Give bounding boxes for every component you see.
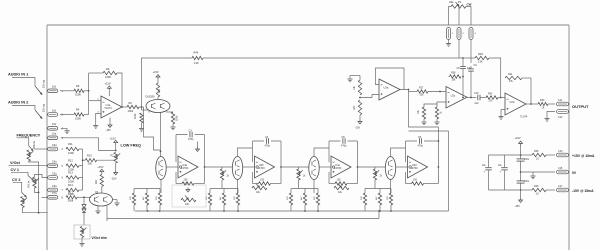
- svg-text:100n: 100n: [524, 159, 530, 161]
- svg-text:R17: R17: [68, 191, 73, 195]
- svg-text:C12: C12: [558, 116, 563, 119]
- capacitor C10 2u2: [478, 96, 480, 98]
- U2d feedback riser left: [500, 78, 502, 98]
- wire R18 to expo pair: [101, 186, 103, 192]
- resistor R10 2k2: [156, 83, 159, 97]
- frame top border: [47, 24, 569, 26]
- wire CV2 wiper to expo row: [42, 197, 48, 199]
- wire U2d output: [526, 103, 538, 105]
- stage 3 loop right wire: [357, 141, 359, 167]
- stage 4 bias resistor 2: [379, 189, 381, 194]
- connector CV1: [48, 176, 58, 180]
- connector pin 1: [447, 28, 451, 40]
- svg-text:CV 1: CV 1: [11, 168, 19, 172]
- connector output ground: [557, 110, 569, 114]
- wire U1a noninverting input to ground: [96, 113, 101, 125]
- junction power rail / -15V row: [520, 189, 522, 191]
- wire CV1 pot bottom to ground bus: [35, 188, 39, 192]
- wire C10 to R42: [480, 97, 486, 99]
- junction power rail / +15V row: [520, 154, 522, 156]
- svg-text:43k: 43k: [449, 0, 454, 4]
- resistor R11 100K: [66, 147, 79, 150]
- svg-text:TL074: TL074: [104, 106, 112, 110]
- resistor R36 1k5: [358, 100, 361, 115]
- stage 4 loop top wire: [406, 140, 439, 142]
- wire P1 pin 3 tap down: [470, 66, 472, 69]
- wire stage 1 bias resistor 1 to bus: [133, 205, 135, 211]
- connector frequency: [48, 147, 58, 151]
- stage 2 feedback right wire: [280, 167, 282, 184]
- svg-text:100K: 100K: [75, 93, 81, 97]
- diode D2: [82, 209, 86, 213]
- ground input 3: [64, 130, 69, 132]
- wire pot 1 to R5: [60, 90, 74, 92]
- resistor R35 10k: [358, 80, 361, 95]
- pot 10k audio extra row: [48, 136, 58, 140]
- trimmer pot V/Oct trim: [80, 227, 83, 238]
- connector pin 3: [469, 28, 473, 40]
- bus A wire (bias bus): [135, 210, 449, 212]
- op-amp U2d TL074: [505, 93, 526, 115]
- stage 1 feedback lower wire: [175, 172, 177, 184]
- svg-text:470p: 470p: [341, 145, 347, 148]
- wire R4 to summing node: [84, 114, 89, 116]
- trimmer P2 10k: [181, 198, 196, 201]
- pot CV2 47k: [21, 197, 24, 208]
- op-amp U4a stage 1: [178, 156, 198, 178]
- svg-text:470p: 470p: [265, 145, 271, 148]
- resistor R45 power +: [526, 154, 532, 156]
- ground U2d: [498, 116, 503, 118]
- stage 2 bias resistor 1: [209, 189, 211, 194]
- wire R6 to filter stage 1 node: [139, 106, 144, 108]
- junction summing node row1: [88, 90, 90, 92]
- svg-text:R27: R27: [419, 86, 424, 89]
- switch frequency jack: [29, 146, 33, 151]
- stage 3 loop top wire: [329, 140, 358, 142]
- -15V arrow divider: [359, 115, 361, 120]
- resistor R7 100k left: [140, 113, 143, 123]
- svg-text:R4: R4: [76, 108, 80, 112]
- summing node wire: [88, 73, 90, 115]
- pot 100k frequency: [27, 150, 30, 161]
- wire U2a output to R27: [409, 91, 418, 93]
- wire stage 3 bias resistor 1 to bus: [290, 205, 292, 211]
- wire power caps top: [489, 154, 521, 156]
- svg-text:OUTPUT: OUTPUT: [572, 104, 589, 109]
- -15V arrow low freq: [114, 171, 118, 176]
- svg-text:C15: C15: [558, 167, 563, 170]
- svg-text:P1: P1: [458, 0, 462, 4]
- wire P1 right end to connector: [466, 7, 471, 26]
- U2a feedback loop wire: [376, 68, 405, 90]
- svg-text:13K: 13K: [194, 61, 199, 65]
- -15V stub near stage 1 loop: [197, 142, 199, 148]
- frame right border: [568, 25, 570, 250]
- ground U1a input: [93, 125, 98, 127]
- pot 10k audio 1: [48, 89, 58, 93]
- svg-text:C11: C11: [558, 99, 563, 102]
- stage 2 feedback resistor 100k: [253, 183, 259, 185]
- svg-text:470p: 470p: [188, 138, 194, 141]
- capacitor C9 47p tap: [470, 69, 472, 71]
- bus A riser to stage 4 loop: [448, 131, 450, 211]
- stage 2 bias top wire: [210, 188, 238, 190]
- wire frequency pot to connector: [35, 148, 48, 150]
- svg-text:100K: 100K: [68, 179, 74, 183]
- svg-text:1k5: 1k5: [353, 105, 356, 110]
- ground V/Oct trim: [79, 243, 84, 245]
- op-amp U4c stage 3: [331, 156, 351, 178]
- stage 3 loop left wire: [328, 141, 330, 162]
- ground output jack: [544, 118, 549, 120]
- wire bus to R39: [463, 57, 475, 59]
- svg-text:100: 100: [337, 179, 342, 182]
- junction bus A: [304, 210, 306, 212]
- svg-text:V/Oct: V/Oct: [10, 161, 21, 165]
- wire +15V row: [521, 154, 526, 156]
- wire stage 2 pair top to loop: [238, 148, 253, 157]
- junction tap to signal: [470, 97, 472, 99]
- svg-text:100n: 100n: [524, 181, 530, 183]
- ground 0V: [532, 172, 534, 176]
- wire U2a output down: [404, 90, 438, 128]
- +15V arrow stage 1 top: [156, 75, 160, 80]
- junction ground bus / CV3 row: [38, 212, 40, 214]
- feedback bus wire: [142, 57, 464, 59]
- wire stage 1 bias resistor 3 to bus: [159, 205, 161, 211]
- svg-text:13K: 13K: [478, 60, 483, 64]
- wire output ground connector: [547, 112, 555, 119]
- stage 4 input trimmer: [374, 167, 376, 169]
- wire 0V row: [521, 171, 555, 173]
- resistor R30: [435, 107, 438, 119]
- wire R43 to output connector: [548, 103, 555, 105]
- power rail wire +: [520, 146, 522, 199]
- resistor R44 13K in feedback bus: [192, 55, 203, 61]
- wire pot 2 to R4: [60, 114, 74, 116]
- filter stage 2 transistor pair: [232, 157, 242, 180]
- connector output hot: [557, 102, 569, 106]
- wire stage 4 loop feed: [437, 127, 439, 141]
- -15V arrow power: [519, 198, 523, 203]
- wire pin 2 to feedback bus: [458, 40, 460, 59]
- frame left border: [46, 25, 48, 250]
- svg-text:10k log: 10k log: [43, 79, 46, 88]
- svg-text:100k: 100k: [128, 109, 134, 113]
- junction power rail mid: [520, 171, 522, 173]
- resistor R4 100K: [74, 113, 84, 116]
- filter stage 1 transistor pair: [156, 157, 166, 180]
- stage 2 bias resistor 3: [237, 189, 239, 194]
- connector pin 2: [457, 28, 461, 40]
- svg-text:U2a: U2a: [384, 86, 389, 90]
- stage 2 loop left wire: [252, 141, 254, 162]
- svg-text:C10: C10: [474, 92, 479, 95]
- electrolytic cap C18 10u: [488, 155, 490, 167]
- svg-text:-15V: -15V: [111, 177, 117, 181]
- pot 10k audio 2: [48, 113, 58, 117]
- capacitor C8 47p feedback: [462, 67, 464, 69]
- wire stage 4 pair bottom down: [390, 180, 392, 194]
- stage 3 feedback right wire: [357, 167, 359, 184]
- svg-text:+15V: +15V: [110, 136, 116, 140]
- switch audio in 1: [35, 86, 42, 95]
- electrolytic cap C19 10u: [504, 155, 506, 167]
- svg-text:100K: 100K: [68, 151, 74, 155]
- svg-text:13700: 13700: [334, 166, 342, 170]
- svg-text:-15V: -15V: [515, 204, 521, 208]
- wire +15V to R10: [157, 79, 159, 83]
- svg-text:470p: 470p: [418, 145, 424, 148]
- resistor R38 10k feedback: [450, 75, 462, 78]
- wire CV2 jack: [13, 182, 22, 192]
- wire trimmer to ground: [81, 238, 83, 244]
- svg-text:R39: R39: [478, 52, 483, 56]
- svg-text:R45: R45: [534, 150, 539, 153]
- svg-text:R38: R38: [451, 71, 456, 74]
- resistor R6 100k to stage 1: [127, 105, 139, 108]
- CV summing node vertical wire: [82, 149, 84, 190]
- svg-text:CA3280: CA3280: [145, 95, 155, 99]
- svg-text:C5a: C5a: [52, 172, 57, 175]
- resistor R14 100K: [66, 188, 79, 191]
- svg-text:C7a: C7a: [52, 192, 57, 195]
- stage 3 bias resistor 3: [317, 189, 319, 194]
- OTA CA3280 input pair: [146, 100, 170, 113]
- switch audio in 2: [35, 110, 42, 119]
- svg-text:R11: R11: [68, 142, 73, 146]
- junction bus A: [379, 210, 381, 212]
- svg-text:10k: 10k: [88, 161, 93, 165]
- resistor R39 13K: [475, 56, 489, 59]
- wire stage 3 pair bottom down: [313, 180, 315, 194]
- stage 1 feedback right wire: [204, 167, 206, 184]
- ground R8: [172, 124, 174, 127]
- wire U2c noninverting network: [437, 102, 446, 107]
- svg-text:R41: R41: [508, 73, 513, 76]
- filter stage 3 transistor pair: [309, 157, 319, 180]
- wire R39 to summing node riser: [489, 58, 501, 78]
- wire stage 3 bias resistor 3 to bus: [317, 205, 319, 211]
- svg-text:R42: R42: [488, 92, 493, 95]
- trimmer P3 10k: [252, 186, 267, 189]
- ground below connector pin 1: [448, 40, 450, 44]
- svg-text:13700: 13700: [410, 166, 418, 170]
- svg-text:U2c: U2c: [451, 93, 456, 97]
- wire R13 to CV summing node: [79, 177, 83, 179]
- wire bus corner down to stage 1: [141, 58, 143, 107]
- trimmer P2 low freq: [114, 152, 117, 163]
- wire R38 to riser: [462, 76, 464, 78]
- wire stage 2 pair bottom down: [237, 180, 239, 194]
- stage 4 bias top wire: [365, 188, 391, 190]
- svg-text:100: 100: [413, 179, 418, 182]
- stage 1 bias resistor 2: [146, 189, 148, 194]
- svg-text:13700: 13700: [257, 166, 265, 170]
- ground R30: [436, 119, 438, 122]
- stage 2 input trimmer: [221, 167, 223, 169]
- pot CV1 47k: [33, 177, 36, 188]
- wire low freq row to trimmer: [61, 138, 115, 151]
- stage 3 output junction: [357, 166, 359, 168]
- junction bus A / riser: [378, 210, 380, 212]
- ground R7: [141, 123, 143, 128]
- stage 4 loop right wire: [437, 141, 439, 167]
- wire audio in 2 jack: [12, 106, 35, 111]
- stage 2 feedback lower wire: [252, 172, 254, 184]
- resistor R42 27k: [486, 96, 498, 99]
- resistor R5 100K: [74, 89, 84, 92]
- svg-text:10k log: 10k log: [43, 103, 46, 112]
- svg-text:Q1: Q1: [95, 190, 99, 194]
- svg-text:10a: 10a: [52, 133, 57, 136]
- svg-text:0V: 0V: [572, 171, 577, 175]
- wire stage 1 pair output to op-amp: [166, 166, 178, 168]
- wire R11 to CV summing node: [79, 148, 83, 150]
- wire U2c output right: [467, 97, 476, 99]
- wire stage 1 output to stage 2: [205, 166, 233, 168]
- stage 1 bias resistor 3: [159, 189, 161, 194]
- wire stage 4 pair top to loop: [391, 148, 406, 157]
- resistor R46 power -: [526, 189, 532, 191]
- svg-text:U2d: U2d: [510, 100, 515, 104]
- trimmer P1 43k resonance pot: [451, 5, 466, 8]
- junction stage 4 loop: [438, 140, 440, 142]
- stage 3 bias resistor 1: [290, 189, 292, 194]
- wire input 3 to ground: [61, 128, 67, 130]
- svg-text:AUDIO IN 1: AUDIO IN 1: [8, 73, 28, 77]
- svg-text:2k2: 2k2: [95, 179, 98, 184]
- svg-text:47k lin: 47k lin: [28, 180, 31, 188]
- U2c feedback riser: [462, 58, 464, 66]
- capacitor C6 470p stage 4: [417, 139, 424, 142]
- wire frequency jack: [17, 138, 29, 146]
- wire R17 to expo node: [77, 196, 91, 198]
- svg-text:R5: R5: [76, 84, 80, 88]
- capacitor C3 470p stage 1: [188, 133, 195, 136]
- wire stage 4 bias resistor 3 to bus: [390, 205, 392, 211]
- stage 4 bias resistor 1: [364, 189, 366, 194]
- wire expo base chain down: [83, 197, 85, 204]
- svg-text:100K: 100K: [105, 75, 111, 79]
- junction low freq trimmer top: [115, 150, 117, 152]
- stage 3 feedback lower wire: [328, 172, 330, 184]
- wire audio in 1 jack: [12, 78, 35, 87]
- stage 4 feedback resistor 100k: [406, 183, 412, 185]
- wire bus riser top: [409, 130, 449, 132]
- ground expo pair bottom: [97, 206, 99, 211]
- stage 4 feedback lower wire: [405, 172, 407, 184]
- junction U2c output feedback: [462, 97, 464, 99]
- feedback wire over U1a: [89, 72, 103, 74]
- svg-text:2k2: 2k2: [158, 88, 161, 93]
- svg-text:TL074: TL074: [520, 115, 528, 119]
- connector +15V: [557, 153, 569, 157]
- stage 2 bias resistor 2: [223, 189, 225, 194]
- wire stage 2 pair output to op-amp: [243, 166, 255, 168]
- svg-text:R12: R12: [68, 159, 73, 163]
- wire diodes to trimmer: [83, 213, 85, 226]
- junction stage 1 top: [160, 151, 162, 153]
- bus B to bus A riser: [378, 211, 380, 219]
- wire summing node to U1a inverting input: [89, 100, 101, 102]
- op-amp U2c: [446, 87, 467, 109]
- svg-text:+15V @ 10mA: +15V @ 10mA: [572, 154, 595, 158]
- U2d feedback riser right: [522, 77, 531, 79]
- expo pair Q1 matched transistors: [90, 193, 113, 206]
- wire CV2 pot bottom to CV3 row: [23, 208, 48, 213]
- -15V arrow in trimmer box P2: [186, 188, 190, 193]
- svg-text:R46: R46: [534, 185, 539, 188]
- junction bus A: [223, 210, 225, 212]
- svg-text:C6a: C6a: [52, 185, 57, 188]
- wire stage 4 bias resistor 2 to bus: [379, 205, 381, 211]
- wire CA3280 middle leg down to stage 1 pair: [160, 113, 162, 157]
- resistor R15 10k to expo: [85, 159, 96, 162]
- wire CV1 pot top to connector: [35, 175, 48, 178]
- ground expo right: [113, 199, 118, 201]
- junction bus A: [390, 210, 392, 212]
- wire -15V row: [521, 189, 526, 191]
- wire U2d noninverting to ground: [501, 110, 505, 116]
- wire stage 4 bias resistor 1 to bus: [364, 205, 366, 211]
- wire stage 3 output to stage 4: [358, 166, 386, 168]
- connector expo input: [48, 196, 58, 200]
- svg-text:+15V: +15V: [153, 70, 159, 74]
- stage 2 loop top wire: [253, 140, 282, 142]
- svg-text:R43: R43: [540, 99, 545, 102]
- wire stage 4 pair output to op-amp: [396, 166, 408, 168]
- junction bus A: [237, 210, 239, 212]
- junction feedback bus / C8 branch: [462, 57, 464, 59]
- svg-text:-15V @ 15mA: -15V @ 15mA: [572, 189, 594, 193]
- svg-text:R44: R44: [194, 51, 199, 55]
- wire stage 1 bias resistor 2 to bus: [146, 205, 148, 211]
- wire stage 2 bias resistor 1 to bus: [209, 205, 211, 211]
- wire stage 2 bias resistor 2 to bus: [223, 205, 225, 211]
- wire CV1 jack: [11, 172, 28, 175]
- wire R9 to U1a output: [117, 73, 122, 107]
- capacitor C16 100n: [519, 181, 521, 183]
- wire P1 wiper to connector: [458, 7, 460, 26]
- junction U2d output: [530, 103, 532, 105]
- resistor R43 1K output: [538, 102, 548, 105]
- svg-text:100: 100: [260, 179, 265, 182]
- wire R27 to U2c inverting input: [428, 91, 446, 93]
- resistor R17 100k expo: [66, 196, 77, 199]
- resistor R29: [422, 107, 425, 119]
- trimmer box V/Oct: [74, 225, 90, 239]
- stage 1 loop right wire: [204, 135, 206, 167]
- wire stage 2 bias resistor 3 to bus: [237, 205, 239, 211]
- bus B wire (expo collector bus): [107, 218, 379, 220]
- wire stage 3 pair top to loop: [314, 148, 329, 157]
- junction divider node: [359, 97, 361, 99]
- stage 1 feedback resistor 100k: [176, 183, 182, 185]
- wire U1a output to R6: [122, 106, 127, 108]
- wire stage1 input left leg: [141, 107, 143, 110]
- capacitor C4 470p stage 2: [264, 139, 271, 142]
- wire R42 to U2d inverting input: [498, 97, 505, 99]
- svg-text:R15: R15: [87, 154, 92, 158]
- pot 10k audio 3 (spare input): [48, 127, 58, 131]
- junction U1a output: [121, 106, 123, 108]
- svg-text:100k: 100k: [68, 199, 74, 203]
- resistor R8 100k right: [171, 112, 174, 124]
- stage 4 feedback right wire: [437, 167, 439, 184]
- junction bus A: [147, 210, 149, 212]
